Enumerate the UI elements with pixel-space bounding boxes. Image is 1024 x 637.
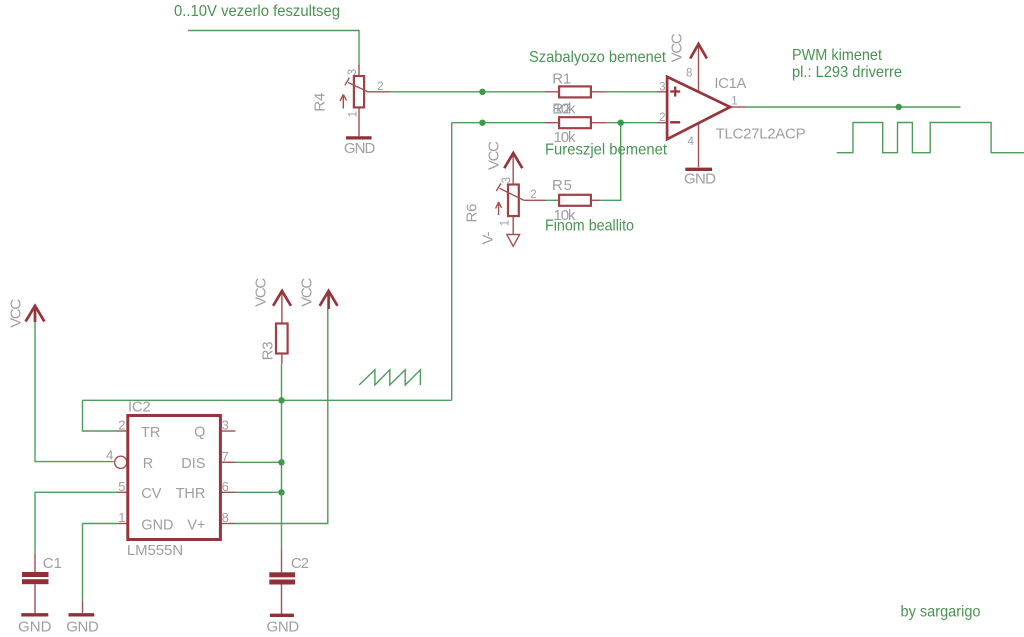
svg-text:2: 2 (118, 418, 125, 433)
svg-text:C1: C1 (43, 555, 62, 572)
svg-text:0..10V vezerlo feszultseg: 0..10V vezerlo feszultseg (174, 3, 340, 20)
svg-text:CV: CV (141, 486, 161, 502)
svg-text:Szabalyozo bemenet: Szabalyozo bemenet (529, 49, 667, 66)
svg-text:2: 2 (530, 189, 536, 201)
svg-text:6: 6 (222, 479, 229, 494)
svg-text:4: 4 (688, 136, 695, 148)
svg-text:2: 2 (377, 81, 383, 93)
svg-text:3: 3 (659, 81, 665, 93)
svg-text:VCC: VCC (8, 299, 25, 328)
svg-text:3: 3 (222, 418, 229, 433)
svg-text:IC2: IC2 (128, 398, 151, 415)
svg-text:VCC: VCC (299, 278, 316, 307)
svg-text:VCC: VCC (669, 33, 686, 62)
svg-text:GND: GND (267, 618, 300, 635)
svg-text:by sargarigo: by sargarigo (901, 603, 981, 620)
svg-text:R: R (143, 456, 153, 472)
svg-text:R4: R4 (311, 93, 328, 112)
svg-text:7: 7 (222, 449, 229, 464)
svg-text:8: 8 (222, 510, 229, 525)
svg-text:3: 3 (347, 69, 359, 75)
svg-text:GND: GND (141, 517, 173, 533)
svg-text:R3: R3 (260, 341, 277, 360)
svg-text:1: 1 (500, 220, 512, 226)
svg-text:TLC27L2ACP: TLC27L2ACP (716, 126, 806, 143)
svg-text:8: 8 (686, 68, 692, 80)
svg-text:C2: C2 (291, 555, 309, 572)
svg-text:V+: V+ (187, 517, 205, 533)
svg-text:V-: V- (479, 232, 496, 245)
svg-text:IC1A: IC1A (714, 75, 746, 92)
svg-text:5: 5 (118, 479, 125, 494)
svg-text:10k: 10k (554, 129, 577, 146)
svg-text:1: 1 (348, 111, 360, 117)
svg-text:GND: GND (344, 140, 376, 157)
svg-text:GND: GND (684, 170, 716, 187)
svg-text:Q: Q (194, 425, 205, 441)
svg-text:GND: GND (18, 619, 52, 636)
svg-text:1: 1 (118, 510, 125, 525)
svg-text:10k: 10k (554, 207, 577, 224)
svg-text:VCC: VCC (485, 141, 502, 170)
svg-text:DIS: DIS (181, 456, 205, 472)
svg-text:THR: THR (176, 486, 206, 502)
svg-text:VCC: VCC (253, 278, 270, 307)
svg-text:R6: R6 (463, 204, 480, 223)
svg-text:TR: TR (141, 425, 160, 441)
svg-text:2: 2 (659, 112, 665, 124)
svg-text:pl.: L293 driverre: pl.: L293 driverre (792, 64, 902, 81)
svg-text:3: 3 (501, 177, 513, 183)
svg-text:10k: 10k (554, 100, 577, 117)
svg-text:R5: R5 (552, 177, 572, 194)
svg-text:LM555N: LM555N (127, 542, 183, 559)
svg-text:R1: R1 (552, 71, 571, 88)
svg-text:1: 1 (731, 96, 737, 108)
svg-text:GND: GND (66, 619, 99, 636)
svg-text:PWM kimenet: PWM kimenet (792, 47, 882, 64)
svg-text:4: 4 (106, 448, 113, 463)
